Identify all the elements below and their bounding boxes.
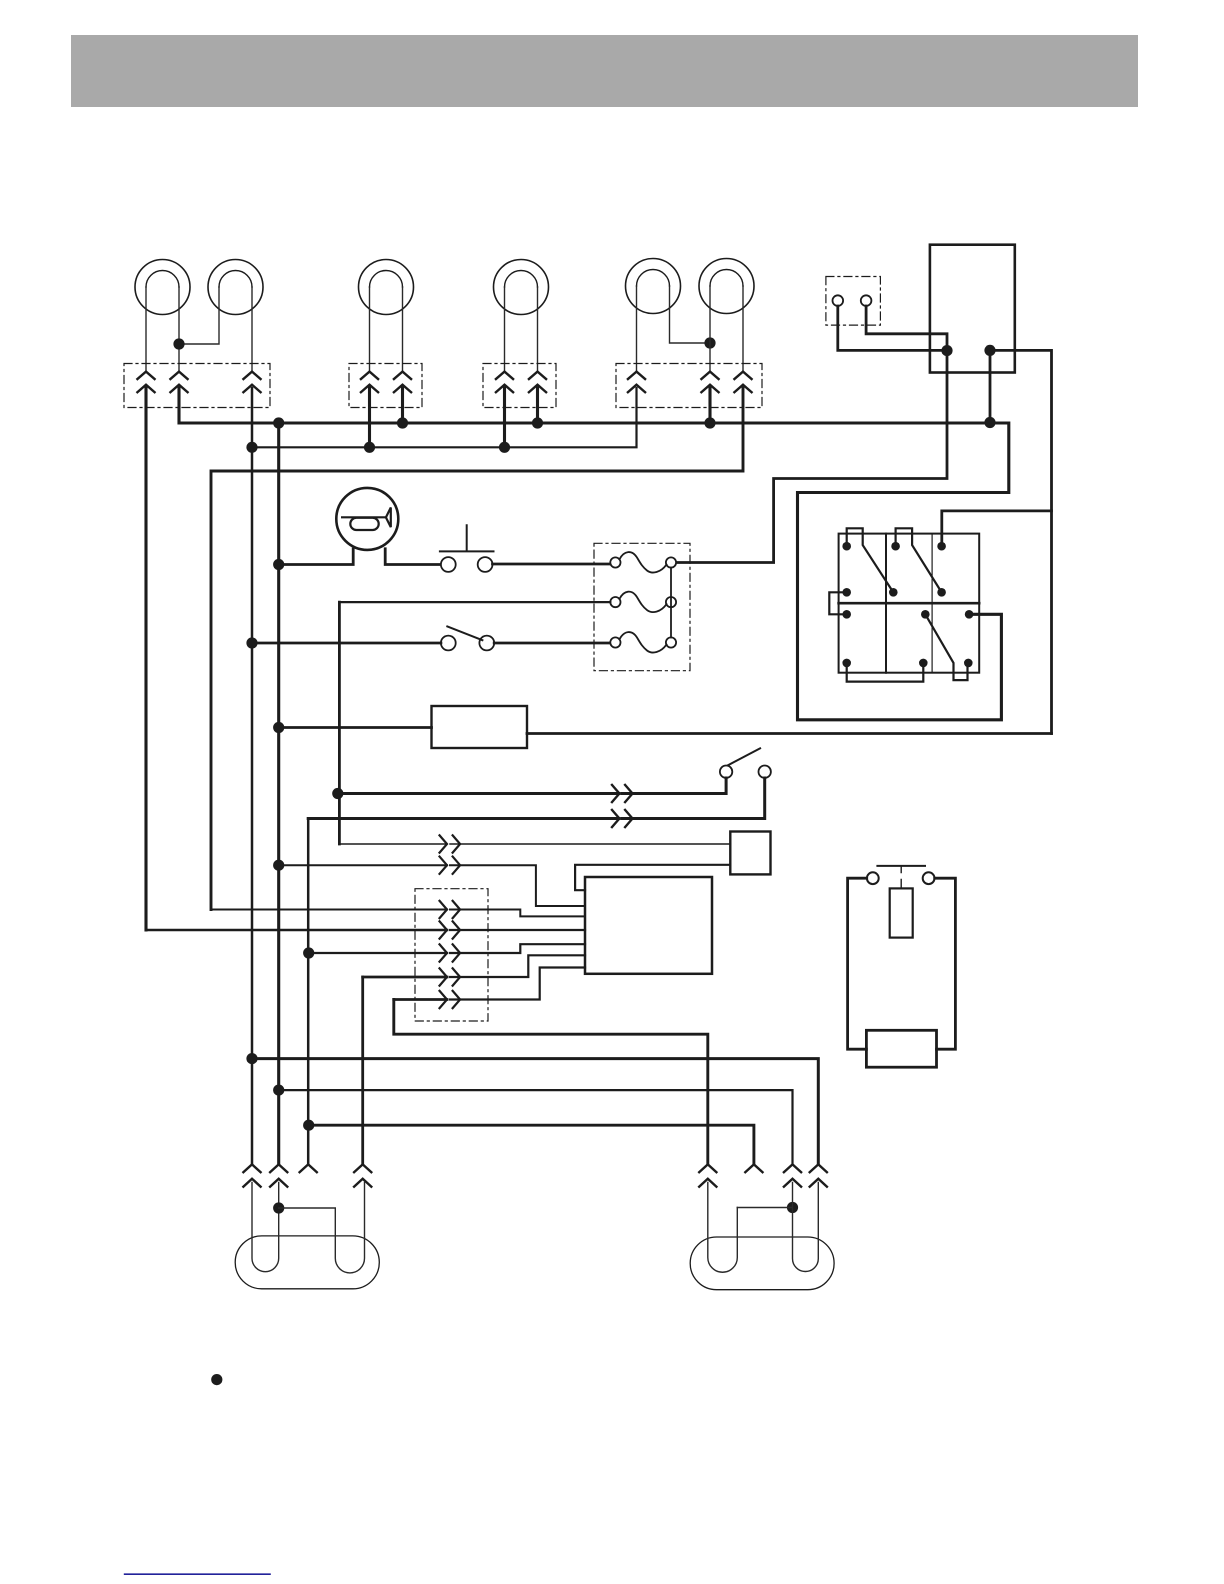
header gray bar bbox=[71, 35, 1138, 107]
K1 pin D1 bbox=[842, 659, 851, 668]
wire C2 left segment bbox=[146, 929, 447, 932]
node B2-c bbox=[499, 442, 510, 453]
wire C3 right segment into U2 bbox=[450, 944, 585, 953]
wire horn left lead bbox=[279, 549, 354, 565]
connector CN4 (inline) bbox=[439, 856, 460, 875]
node P3 on bus B1 bbox=[984, 417, 995, 428]
switch SW3 (hazard) bbox=[720, 748, 771, 778]
wire P2 down to bus B1 bbox=[989, 350, 992, 421]
wire R1 left feed bbox=[279, 726, 432, 729]
wire W4 right segment into box U2 bbox=[450, 865, 585, 906]
wire lamp E1 left lead bbox=[145, 287, 147, 372]
wire lamp E5 right lead to junction bbox=[670, 286, 711, 343]
K1 contact lever A2-B3 bbox=[896, 528, 942, 592]
K1 link B1-C1 bbox=[829, 592, 846, 614]
node B1-d bbox=[704, 417, 715, 428]
control unit box U2 bbox=[585, 877, 712, 974]
node HE2 tap bbox=[787, 1202, 798, 1213]
node HE1 tap bbox=[273, 1202, 284, 1213]
connector CN6 pin (x=818.3) bbox=[809, 1164, 828, 1187]
connector J6 pin 1 bbox=[439, 900, 460, 919]
node B1-b bbox=[397, 417, 408, 428]
connector J2 pin 2 bbox=[393, 372, 412, 393]
connector J3 pin 1 bbox=[495, 372, 514, 393]
small box U3 bbox=[730, 832, 770, 875]
lamp E1 (headlamp left outer) bbox=[135, 260, 190, 315]
wire lamp E1 right lead bbox=[178, 287, 180, 372]
K1 pin B2 bbox=[889, 588, 898, 597]
wire lamp E6 left lead bbox=[709, 286, 711, 372]
wire P2 right and down right side to flasher line bbox=[990, 350, 1052, 733]
wire W2 right segment to SW3 bbox=[623, 778, 765, 819]
wire W1 left segment bbox=[338, 792, 620, 795]
wire bus B6 bbox=[279, 1090, 793, 1164]
wire P1 down to fuse feed bbox=[677, 351, 947, 563]
connector J6 pin 3 bbox=[439, 944, 460, 963]
wire W2 drop bbox=[307, 819, 310, 1165]
wire branch to relay pin A3 bbox=[942, 511, 1052, 542]
K1 link D1-D2 bbox=[847, 663, 924, 682]
node P2 bbox=[984, 345, 995, 356]
wire HE1 loop 2 bbox=[279, 1183, 365, 1273]
heater element HE1 (left stadium) bbox=[235, 1236, 379, 1289]
wire fuse F2 drop bbox=[338, 602, 341, 844]
wire W3 right segment bbox=[450, 843, 730, 845]
fuse F2 bbox=[610, 592, 676, 612]
connector half (unmated, x=308.2) bbox=[299, 1164, 318, 1173]
wire bus B7 bbox=[309, 1125, 754, 1164]
fuse block FB (dash-dot box) bbox=[594, 543, 690, 670]
wire lamp E5 left lead bbox=[636, 286, 638, 372]
connector J6 pin 4 bbox=[439, 968, 460, 987]
connector J6 pin 5 bbox=[439, 990, 460, 1009]
node P1 bbox=[941, 345, 952, 356]
connector CN5 pin (x=278.7) bbox=[269, 1164, 288, 1187]
connector J2 pin 1 bbox=[360, 372, 379, 393]
wire U3 to box U2 bbox=[575, 865, 730, 890]
connector block J2 bbox=[349, 364, 422, 408]
K1 pin D2 bbox=[919, 659, 928, 668]
K1 pin C3 bbox=[965, 610, 974, 619]
wire bus B5 bbox=[252, 1059, 818, 1165]
connector block J5 (dashed, top right) bbox=[826, 277, 881, 326]
wire horn right lead bbox=[385, 549, 441, 565]
wire C4 right segment into U2 bbox=[450, 955, 585, 977]
wire B1-a drop (long) bbox=[277, 423, 280, 1164]
wire lamp E4 leads bbox=[505, 287, 538, 372]
connector J1 pin 2 bbox=[170, 372, 189, 393]
relay/turn switch box K1 bbox=[839, 534, 980, 673]
node B2-b bbox=[364, 442, 375, 453]
wire J5-b lead to node P1 bbox=[866, 306, 947, 345]
wire J4 pin2 drop bbox=[708, 388, 711, 423]
node B6 tap bbox=[273, 1085, 284, 1096]
wire bus B3 bbox=[211, 388, 743, 910]
wire lamp E2 left lead to junction bbox=[179, 287, 219, 344]
node B5 tap bbox=[246, 1053, 257, 1064]
footnote bullet bbox=[211, 1374, 222, 1385]
connector CN5 pin (x=362.7) bbox=[353, 1164, 372, 1187]
wire SW1 to fuse F1 bbox=[493, 563, 611, 566]
connector J4 pin 2 bbox=[701, 372, 720, 393]
K1 contact lever A1-B2 bbox=[847, 528, 894, 592]
node B2-a bbox=[246, 442, 257, 453]
push button SW1 (horn button) bbox=[440, 525, 494, 572]
wire J3 pin2 drop bbox=[536, 388, 539, 423]
connector CN2 (inline) bbox=[611, 809, 632, 828]
K1 contact lever C2-D3 bbox=[925, 614, 967, 680]
node junction E1/E2 bbox=[173, 338, 184, 349]
wire C4 left segment bbox=[363, 976, 447, 979]
K1 pin A2 bbox=[891, 542, 900, 551]
connector block J4 bbox=[616, 364, 762, 408]
flasher unit R1 (rectangle) bbox=[432, 706, 528, 748]
wire C1 right segment into U2 bbox=[450, 910, 585, 917]
connector J4 pin 3 bbox=[734, 372, 753, 393]
wire J1 pin1 drop (left main) bbox=[144, 388, 147, 930]
node B1-c bbox=[532, 417, 543, 428]
wire fuse output bus bbox=[670, 568, 672, 638]
connector CN6 pin (x=792.5) bbox=[783, 1164, 802, 1187]
connector half (unmated, x=753.9) bbox=[744, 1164, 763, 1173]
lamp E5 bbox=[626, 259, 681, 314]
wire C4 drop bbox=[361, 977, 364, 1164]
node B7 tap bbox=[303, 1120, 314, 1131]
horn H1 bbox=[336, 488, 398, 550]
wire J1 pin3 drop (long) bbox=[251, 388, 254, 1164]
connector J6 pin 2 bbox=[439, 921, 460, 940]
wire lamp E6 right lead bbox=[742, 286, 744, 372]
node B1-a bbox=[273, 417, 284, 428]
node horn tap bbox=[273, 559, 284, 570]
connector block J3 bbox=[483, 364, 556, 408]
node R1 tap bbox=[273, 722, 284, 733]
wire R1 output to right side bbox=[527, 732, 1052, 735]
wire W4 left segment bbox=[279, 864, 447, 866]
wire J5-a lead to node P1 bbox=[838, 306, 942, 350]
connector CN1 (inline) bbox=[611, 784, 632, 803]
wire HE2 loop 2 bbox=[737, 1183, 818, 1272]
wire lamp E3 leads bbox=[370, 287, 403, 372]
K1 pin A1 bbox=[842, 542, 851, 551]
K1 pin B3 bbox=[937, 588, 946, 597]
wire fuse F2 feed bbox=[339, 601, 610, 603]
wire C1 left segment bbox=[211, 909, 447, 911]
node SW2 tap bbox=[246, 637, 257, 648]
terminal circle J5-a bbox=[833, 295, 844, 306]
node junction E5/E6 bbox=[704, 337, 715, 348]
key switch box U1 (top right rectangle) bbox=[930, 245, 1015, 373]
wire bus B2 bbox=[252, 388, 637, 447]
lamp E3 bbox=[359, 260, 414, 315]
wire bus B1 (main feed) with routed loop to relay pin C3 bbox=[179, 388, 1009, 720]
lamp E4 bbox=[494, 260, 549, 315]
node W4 tap bbox=[273, 860, 284, 871]
battery/charger unit G1 bbox=[848, 866, 956, 1067]
K1 pin C2 bbox=[921, 610, 930, 619]
K1 pin D3 bbox=[964, 659, 973, 668]
lamp E2 (headlamp left inner) bbox=[208, 260, 263, 315]
wire C3 left segment bbox=[309, 952, 447, 954]
connector CN6 pin (bottom right, x=707.8) bbox=[698, 1164, 717, 1187]
node W1 tap bbox=[332, 788, 343, 799]
connector J1 pin 3 bbox=[243, 372, 262, 393]
connector CN5 pin (bottom left, x=252) bbox=[243, 1164, 262, 1187]
connector CN3 (inline) bbox=[439, 835, 460, 854]
K1 pin B1 bbox=[842, 588, 851, 597]
wire SW2 left feed bbox=[252, 642, 441, 645]
wire J2 pin2 drop bbox=[401, 388, 404, 423]
footer rule (blue) bbox=[125, 1573, 270, 1575]
terminal circle J5-b bbox=[861, 295, 872, 306]
connector block J6 (dashed, five-way) bbox=[415, 889, 488, 1021]
wire J3 pin1 drop bbox=[503, 388, 506, 447]
connector J1 pin 1 bbox=[137, 372, 156, 393]
node C3 tap bbox=[303, 947, 314, 958]
heater element HE2 (right stadium) bbox=[690, 1237, 834, 1290]
wire W3 to U3 bbox=[339, 843, 447, 845]
connector block J1 (dash-dot box) bbox=[124, 364, 270, 408]
connector J4 pin 1 bbox=[627, 372, 646, 393]
fuse F3 bbox=[610, 632, 676, 652]
wire C5 right segment into U2 bbox=[450, 968, 585, 1000]
lamp E6 bbox=[699, 259, 754, 314]
K1 pin A3 bbox=[937, 542, 946, 551]
fuse F1 bbox=[610, 552, 676, 572]
wire C5 drop to bus B4 bbox=[394, 1000, 708, 1165]
toggle switch SW2 bbox=[441, 626, 494, 650]
wire W1 right segment to SW3 bbox=[623, 778, 727, 794]
wire C2 right segment into U2 bbox=[450, 929, 585, 931]
wire HE2 loop 1 bbox=[708, 1183, 738, 1273]
K1 pin C1 bbox=[842, 610, 851, 619]
wire HE1 loop 1 bbox=[252, 1183, 279, 1272]
connector J3 pin 2 bbox=[528, 372, 547, 393]
wire J2 pin1 drop bbox=[368, 388, 371, 447]
wire SW2 to fuse F3 bbox=[494, 642, 610, 645]
wire lamp E2 right lead bbox=[251, 287, 253, 372]
wire C5 left segment bbox=[394, 998, 447, 1001]
wire W2 left segment bbox=[308, 817, 619, 820]
